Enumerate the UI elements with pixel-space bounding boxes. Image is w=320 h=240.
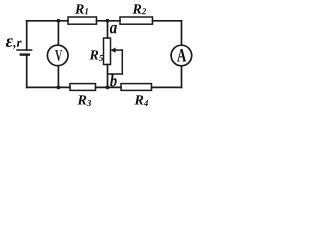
rheostat wiper loop vertical <box>121 50 123 74</box>
junction node b dot <box>106 86 110 90</box>
wire voltmeter branch top <box>57 21 59 45</box>
label R1 <box>75 4 88 14</box>
battery long plate <box>17 49 32 51</box>
junction node dot at voltmeter top <box>57 19 61 23</box>
label R2 <box>132 4 146 14</box>
label R5 <box>89 50 103 61</box>
label R3 <box>77 95 91 106</box>
wire left side above battery <box>26 21 28 50</box>
voltmeter V circle <box>47 45 68 66</box>
wire voltmeter branch bottom <box>57 66 59 88</box>
wire R1 to node a to R2 <box>97 20 121 22</box>
resistor R2 <box>120 17 153 24</box>
ammeter letter A <box>177 49 186 62</box>
label R4 <box>134 95 148 106</box>
wire R4 to node b <box>96 86 122 88</box>
junction node a dot <box>106 19 110 23</box>
junction node dot at voltmeter bottom <box>57 86 61 90</box>
rheostat wiper arm horizontal <box>114 49 123 51</box>
resistor R1 <box>68 17 97 24</box>
resistor R4 <box>121 84 152 91</box>
label node b <box>110 74 117 86</box>
wire left side below battery <box>26 55 28 87</box>
wire middle branch: node a down to R5 <box>107 21 109 38</box>
wire bottom: right corner to R4 <box>152 86 182 88</box>
wire right side down to ammeter <box>181 21 183 45</box>
label node a <box>110 25 117 34</box>
voltmeter letter V <box>55 50 62 61</box>
label epsilon,r <box>6 38 22 48</box>
resistor R3 <box>70 84 96 91</box>
rheostat R5 box <box>104 38 111 65</box>
wire ammeter to bottom-right corner <box>181 66 183 88</box>
wire R3 to bottom-left corner <box>27 86 70 88</box>
wire R5 bottom to node b <box>107 65 109 88</box>
battery short plate <box>21 53 29 55</box>
wire top-left segment <box>27 20 68 22</box>
ammeter A1 circle <box>171 45 192 66</box>
rheostat wiper loop return <box>108 73 123 75</box>
wiper arrowhead <box>110 48 115 53</box>
wire R2 to top-right corner <box>153 20 182 22</box>
